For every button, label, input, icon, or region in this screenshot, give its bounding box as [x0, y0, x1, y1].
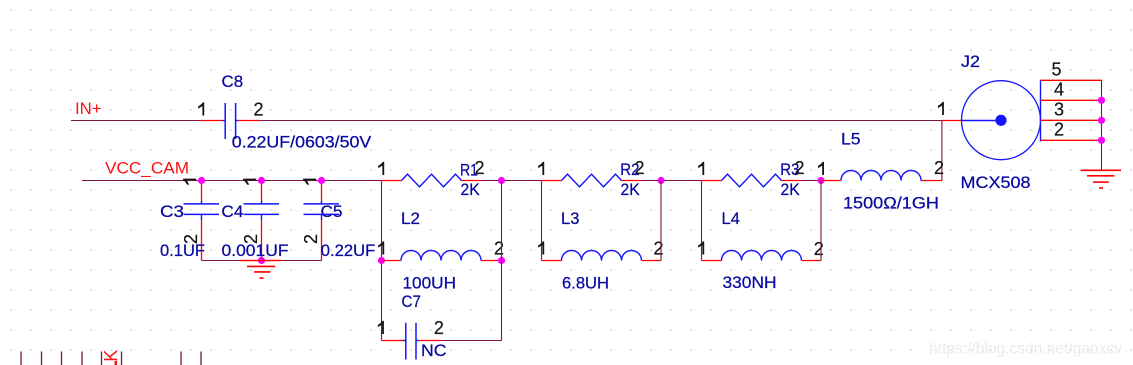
resistor R2 body: [562, 174, 622, 187]
C5 pin 2 lead: [321, 220, 323, 261]
junction node section2 right: [657, 177, 664, 184]
J2 body circle: [962, 81, 1041, 160]
svg-text:330NH: 330NH: [723, 273, 777, 292]
C7 plates: [405, 323, 407, 360]
inductor L2 body: [401, 251, 481, 261]
svg-text:2: 2: [253, 100, 263, 120]
junction node pin3 tie: [1098, 117, 1105, 124]
J2 pin5 lead: [1041, 79, 1103, 81]
inductor L5 body: [841, 171, 921, 181]
svg-text:IN+: IN+: [75, 99, 102, 118]
svg-text:0.22UF/0603/50V: 0.22UF/0603/50V: [232, 132, 372, 151]
junction node pin2 tie: [1098, 137, 1105, 144]
svg-text:K: K: [101, 350, 121, 362]
C5 body: [321, 201, 323, 204]
wire vertical left node section3: [701, 181, 703, 261]
svg-text:MCX508: MCX508: [961, 173, 1031, 192]
svg-text:C4: C4: [221, 202, 243, 221]
svg-text:NC: NC: [421, 341, 447, 360]
C4 pin 2 lead: [261, 220, 263, 261]
svg-text:https://blog.csdn.net/gaoxcv: https://blog.csdn.net/gaoxcv: [929, 341, 1122, 358]
wire C7 to right vertical: [442, 340, 502, 342]
inductor L4 body: [722, 251, 802, 261]
svg-text:C5: C5: [321, 202, 343, 221]
inductor L4 pin1 number: [698, 241, 704, 254]
wire IN+ left segment: [71, 120, 201, 122]
wire vertical right node section3: [820, 181, 822, 261]
inductor L4 pin2 lead: [802, 260, 822, 262]
svg-text:2: 2: [814, 239, 824, 259]
C8 pin 1 number: [198, 102, 204, 115]
junction node C4/VCC: [258, 177, 265, 184]
resistor R3 body: [722, 174, 782, 187]
wire vertical left node section1: [381, 181, 383, 341]
junction node L2 right: [498, 257, 505, 264]
inductor L2 pin2 lead: [481, 260, 502, 262]
C3 body: [201, 201, 203, 204]
svg-text:3: 3: [1054, 100, 1064, 120]
svg-text:2: 2: [934, 158, 944, 178]
C3 pin 1 number (rotated): [183, 179, 196, 185]
wire IN+ right segment to J2: [260, 120, 942, 122]
C7 pin 1 number: [378, 321, 384, 334]
C8 plates: [224, 103, 226, 139]
junction node C3/VCC: [198, 177, 205, 184]
svg-text:2K: 2K: [781, 180, 801, 199]
C4 pin 1 number (rotated): [243, 179, 256, 185]
resistor R1 pin1 lead: [382, 180, 402, 182]
wire vertical right node section1: [501, 181, 503, 341]
svg-text:2: 2: [434, 318, 444, 338]
J2 center dot: [995, 115, 1006, 126]
svg-text:100UH: 100UH: [403, 274, 457, 293]
J2 pin1 lead: [942, 120, 962, 122]
resistor R2 pin1 lead: [542, 180, 562, 182]
J2 pin4 lead: [1041, 99, 1103, 101]
ground under C4: [241, 260, 282, 262]
J2 shell bar: [1040, 80, 1042, 142]
wire R1 to node: [482, 180, 542, 182]
svg-text:4: 4: [1054, 80, 1064, 100]
J2 pin1 number: [938, 102, 944, 115]
ground at J2 shell: [1081, 169, 1122, 171]
svg-text:0.1UF: 0.1UF: [160, 241, 205, 260]
svg-text:C8: C8: [222, 72, 244, 91]
wire vertical left node section2: [541, 181, 543, 261]
junction node section1 right: [498, 177, 505, 184]
wire vertical drop at J2 pin1 column: [941, 121, 943, 181]
svg-text:2: 2: [653, 239, 663, 259]
svg-text:L5: L5: [841, 130, 861, 149]
svg-text:0.001UF: 0.001UF: [222, 241, 289, 260]
C3 pin 2 lead: [201, 220, 203, 261]
svg-text:1500Ω/1GH: 1500Ω/1GH: [843, 194, 939, 213]
svg-text:J2: J2: [961, 52, 980, 71]
svg-text:2: 2: [794, 158, 804, 178]
inductor L5 pin1 lead: [821, 180, 841, 182]
svg-text:L2: L2: [401, 209, 420, 228]
inductor L4 pin1 lead: [702, 260, 722, 262]
resistor R3 pin1 number: [698, 162, 704, 175]
inductor L3 pin1 lead: [542, 260, 562, 262]
inductor L3 pin2 lead: [642, 260, 662, 262]
junction node L2 left: [378, 257, 385, 264]
wire shell tie vertical: [1101, 80, 1103, 169]
svg-text:6.8UH: 6.8UH: [562, 274, 609, 293]
C4 pin 1 lead: [261, 181, 263, 203]
svg-text:2: 2: [301, 234, 321, 244]
wire vertical right node section2: [660, 181, 662, 261]
inductor L5 pin2 lead: [921, 180, 942, 182]
inductor L5 pin1 number: [818, 162, 824, 175]
resistor R1 pin2 lead: [462, 180, 482, 182]
C7 pin 1 lead: [382, 340, 404, 342]
svg-text:5: 5: [1051, 60, 1061, 80]
J2 center conductor line: [962, 120, 1002, 122]
resistor R2 pin1 number: [538, 162, 544, 175]
resistor R3 pin2 lead: [782, 180, 802, 182]
resistor R3 pin1 lead: [702, 180, 722, 182]
svg-text:0.22UF: 0.22UF: [321, 241, 376, 260]
C8 pin 2 lead: [236, 120, 239, 122]
resistor R2 pin2 lead: [622, 180, 642, 182]
C5 pin 1 number (rotated): [303, 179, 316, 185]
svg-text:L4: L4: [722, 209, 740, 228]
svg-text:C3: C3: [160, 202, 184, 221]
resistor R1 pin1 number: [378, 162, 384, 175]
inductor L2 pin1 lead: [382, 260, 402, 262]
wire R3 to node: [802, 180, 822, 182]
svg-text:VCC_CAM: VCC_CAM: [105, 159, 189, 178]
inductor L3 pin1 number: [538, 241, 544, 254]
svg-text:2K: 2K: [621, 180, 641, 199]
J2 pin3 lead: [1041, 119, 1103, 121]
svg-text:L3: L3: [561, 209, 579, 228]
junction node ground tap: [258, 257, 265, 264]
wire R2 to node: [642, 180, 702, 182]
svg-text:2: 2: [474, 158, 484, 178]
wire VCC_CAM: [82, 180, 382, 182]
inductor L3 body: [562, 251, 642, 261]
svg-text:2: 2: [494, 239, 504, 259]
svg-text:2: 2: [634, 158, 644, 178]
C3 pin 1 lead: [201, 181, 203, 203]
C5 pin 1 lead: [321, 181, 323, 203]
C7 pin 2 lead: [416, 340, 419, 342]
C4 body: [261, 201, 263, 204]
resistor R1 body: [402, 174, 462, 187]
svg-text:C7: C7: [402, 292, 421, 311]
C8 pin 1 lead: [201, 120, 223, 122]
wire cap bottom bus: [202, 260, 322, 262]
svg-text:2: 2: [1054, 120, 1064, 140]
junction node pin4 tie: [1098, 97, 1105, 104]
junction node section3 right: [817, 177, 824, 184]
inductor L2 pin1 number: [378, 241, 384, 254]
svg-text:2K: 2K: [461, 180, 481, 199]
bottom edge clipped wire stubs: [20, 352, 22, 365]
J2 pin2 lead: [1041, 139, 1103, 141]
junction node C5/VCC: [318, 177, 325, 184]
